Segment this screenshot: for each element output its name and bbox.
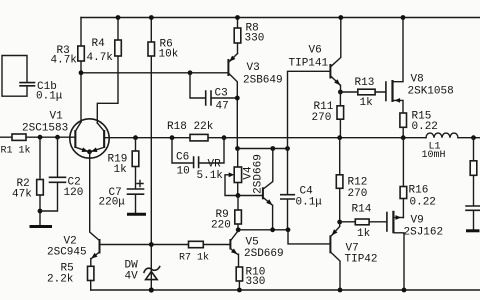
resistor R18	[167, 121, 214, 141]
resistor R16	[400, 138, 436, 218]
svg-text:330: 330	[245, 33, 265, 45]
capacitor C1b	[20, 81, 63, 103]
resistor R3	[51, 18, 85, 123]
resistor R13	[340, 77, 385, 109]
node V3 collector / C3	[235, 96, 240, 101]
node R14 / V7 emitter	[337, 220, 342, 225]
svg-text:R13: R13	[355, 77, 375, 89]
svg-text:VR: VR	[208, 159, 222, 171]
svg-text:10: 10	[177, 166, 190, 178]
svg-text:0.22: 0.22	[412, 121, 438, 133]
wire feedback/output line y=138	[105, 137, 426, 139]
wire V1 emitters down to V2 collector	[90, 152, 99, 240]
svg-text:V1: V1	[50, 111, 64, 123]
svg-text:R1 1k: R1 1k	[1, 145, 31, 157]
resistor R8	[234, 18, 264, 54]
svg-text:2.2k: 2.2k	[47, 274, 74, 286]
svg-text:1k: 1k	[114, 164, 128, 176]
resistor R6	[148, 18, 179, 245]
node C4 top	[285, 146, 290, 151]
svg-text:220: 220	[211, 220, 231, 232]
node zener / base line	[149, 242, 154, 247]
svg-text:R16: R16	[409, 185, 429, 197]
wire output line after inductor	[458, 137, 480, 139]
resistor R2	[12, 137, 43, 225]
svg-text:2SD669: 2SD669	[253, 154, 265, 194]
wire bottom negative rail	[91, 289, 480, 291]
svg-text:C3: C3	[215, 88, 228, 100]
svg-text:4.7k: 4.7k	[87, 52, 114, 64]
svg-text:R4: R4	[92, 38, 106, 50]
zobel resistor	[470, 138, 477, 206]
svg-text:47: 47	[216, 101, 229, 113]
node V6 emitter / R13 / R11	[338, 90, 343, 95]
node VR/R9/V4 base junction	[236, 193, 241, 198]
svg-text:V8: V8	[411, 74, 424, 86]
svg-text:10mH: 10mH	[422, 150, 446, 161]
svg-text:0.1μ: 0.1μ	[36, 91, 63, 103]
wire input line to V1 left base	[0, 136, 74, 138]
svg-text:2SJ162: 2SJ162	[404, 227, 444, 239]
transistor V7 TIP42	[329, 222, 377, 290]
ground below C7	[127, 213, 146, 216]
resistor R15	[400, 111, 438, 138]
ground below zobel	[466, 229, 480, 232]
node output R15/R16	[401, 135, 406, 140]
ground below R2	[30, 225, 53, 228]
svg-text:22k: 22k	[194, 121, 214, 133]
resistor R12	[336, 138, 367, 222]
svg-text:4.7k: 4.7k	[51, 55, 78, 67]
resistor R9	[211, 196, 241, 232]
wire V1 left collector to V3 base (y=73 line)	[81, 72, 227, 74]
svg-text:2SK1058: 2SK1058	[408, 86, 454, 98]
transistor V1 dual 2SC1583	[22, 111, 109, 159]
potentiometer VR 5.1k	[197, 149, 242, 196]
node R2/C2 junction	[38, 209, 43, 214]
svg-text:1k: 1k	[360, 97, 374, 109]
node output/feedback at R11/R12	[337, 135, 342, 140]
zobel capacitor	[466, 206, 480, 229]
svg-text:R14: R14	[352, 204, 372, 216]
resistor R4	[87, 18, 122, 124]
svg-text:2SB649: 2SB649	[243, 75, 283, 87]
svg-text:2SD669: 2SD669	[244, 248, 284, 260]
node R19 tap	[133, 135, 138, 140]
wire top positive rail	[81, 17, 480, 19]
svg-text:0.22: 0.22	[410, 197, 436, 209]
zener diode DW 4V	[125, 245, 160, 291]
resistor R14	[340, 204, 387, 241]
node R18 left / C6 left	[170, 135, 175, 140]
wire V2/V5 base bias line	[100, 244, 229, 246]
inductor L1	[422, 133, 459, 161]
capacitor C2	[40, 137, 83, 211]
node R18 right / C6 right	[222, 135, 227, 140]
transistor V6 TIP141	[288, 18, 341, 149]
resistor R11	[312, 92, 344, 138]
transistor V5 2SD669	[229, 231, 283, 261]
svg-text:330: 330	[246, 276, 266, 288]
svg-text:R18: R18	[167, 121, 187, 133]
svg-text:2SC1583: 2SC1583	[22, 123, 68, 135]
node V4 collector top	[270, 146, 275, 151]
svg-text:TIP141: TIP141	[289, 58, 329, 70]
svg-text:0.1μ: 0.1μ	[296, 197, 323, 209]
resistor R7	[179, 241, 209, 263]
resistor R19	[108, 138, 139, 189]
wire spreader top node line	[238, 148, 288, 150]
capacitor C4	[281, 149, 323, 230]
svg-text:220μ: 220μ	[99, 197, 126, 209]
svg-text:270: 270	[312, 112, 332, 124]
mosfet V9 2SJ162	[387, 211, 443, 290]
svg-text:V9: V9	[411, 215, 424, 227]
svg-text:4V: 4V	[125, 271, 139, 283]
transistor V3 2SB649	[227, 54, 282, 149]
input shield box	[2, 56, 27, 97]
capacitor C3	[190, 73, 237, 113]
svg-text:120: 120	[64, 187, 84, 199]
transistor V2 2SC945	[47, 236, 101, 267]
capacitor C6	[172, 138, 224, 178]
resistor R1	[1, 134, 31, 157]
svg-text:V5: V5	[246, 237, 259, 249]
node C2 tap	[55, 135, 60, 140]
svg-text:V6: V6	[309, 45, 322, 57]
wire spreader bottom node line	[238, 229, 288, 231]
node zobel tap	[471, 135, 476, 140]
svg-text:C6: C6	[176, 152, 189, 164]
resistor R5	[47, 263, 94, 291]
node R2 tap	[38, 135, 43, 140]
svg-text:47k: 47k	[12, 189, 32, 201]
svg-text:TIP42: TIP42	[345, 254, 378, 266]
transistor V4 2SD669 vbe multiplier	[238, 149, 273, 230]
node R3 collector junction	[79, 70, 84, 75]
svg-text:10k: 10k	[159, 49, 179, 61]
node spreader top on V3 collector line	[235, 146, 240, 151]
svg-text:2SC945: 2SC945	[47, 247, 87, 259]
svg-text:R7 1k: R7 1k	[179, 252, 209, 264]
svg-text:270: 270	[348, 188, 368, 200]
svg-text:R12: R12	[348, 177, 368, 189]
node C3 tap on y=73	[188, 70, 193, 75]
svg-text:1k: 1k	[357, 228, 371, 240]
capacitor C7 polarized	[99, 181, 144, 214]
svg-text:V3: V3	[247, 62, 260, 74]
svg-text:5.1k: 5.1k	[197, 170, 224, 182]
resistor R10	[236, 254, 265, 290]
wire bottom node to V7 base	[288, 230, 329, 244]
mosfet V8 2SK1058	[386, 18, 454, 114]
